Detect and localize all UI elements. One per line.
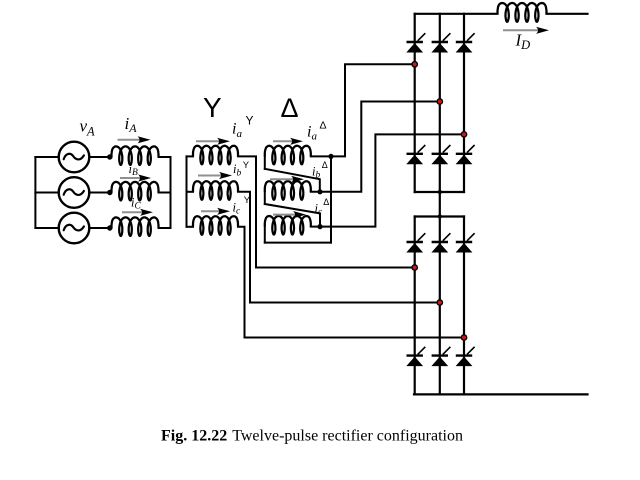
wire Y c output: [238, 227, 464, 338]
wire source C left stub: [35, 227, 58, 229]
wire primary A right lead: [159, 156, 171, 158]
Y secondary winding c: [193, 216, 238, 235]
voltage source vA: [59, 142, 90, 173]
junction top bridge phase c: [461, 132, 466, 137]
wire primary B right lead: [159, 192, 171, 194]
junction delta a: [328, 154, 333, 159]
arrow ic_D: [273, 211, 306, 218]
Delta secondary winding b: [265, 181, 311, 200]
smoothing inductor LD: [498, 3, 547, 22]
wire delta b tap: [311, 102, 440, 192]
thyristor T10 lower: [406, 347, 425, 366]
label ib_D: [312, 160, 328, 181]
wire delta c start hook: [264, 227, 266, 243]
junction top bridge phase b: [437, 99, 442, 104]
junction delta c: [317, 224, 322, 229]
svg-text:Δ: Δ: [323, 197, 329, 207]
Delta secondary winding a: [265, 146, 311, 165]
wire source B left stub: [35, 192, 58, 194]
wire top bridge positive bus: [415, 13, 498, 15]
wire delta right link: [330, 156, 332, 242]
thyristor T9: [431, 233, 450, 252]
wire delta a-b diagonal: [265, 169, 320, 192]
thyristor T3: [431, 33, 450, 52]
wire bottom bridge leg 3: [463, 217, 465, 395]
svg-text:Y: Y: [246, 114, 254, 128]
arrow ia_D: [273, 138, 303, 145]
label ic_Y: [233, 195, 251, 217]
wire source A to primary A: [89, 156, 111, 158]
thyristor T4 lower: [406, 145, 425, 164]
arrow ib_Y: [198, 172, 232, 179]
polarity dot primary B: [107, 190, 112, 195]
caption: [161, 428, 463, 445]
primary winding C: [112, 217, 159, 236]
wire top bridge lower bus: [415, 191, 464, 193]
label iA: [125, 114, 138, 135]
svg-text:Y: Y: [244, 195, 251, 206]
thyristor T5: [456, 33, 475, 52]
wire source C to primary C: [89, 227, 111, 229]
wire bottom bridge leg 1: [414, 217, 416, 395]
wire Y b output: [238, 192, 440, 303]
label iC: [131, 196, 141, 212]
wire Y b left stub: [187, 191, 194, 193]
label ia_Y: [232, 114, 254, 140]
wire delta a start hook: [264, 156, 266, 168]
junction top bridge lower bus: [438, 190, 442, 194]
wire delta b-c diagonal: [265, 204, 320, 227]
wire primary neutral bus: [170, 157, 172, 228]
Y secondary winding b: [193, 181, 238, 200]
polarity dot primary C: [107, 225, 112, 230]
thyristor T11: [456, 233, 475, 252]
wire bottom bridge leg 2: [439, 217, 441, 395]
primary winding B: [112, 182, 159, 201]
wire Y a output: [238, 156, 415, 267]
Delta secondary winding c: [265, 216, 311, 235]
junction delta b: [317, 189, 322, 194]
wire Y c left stub: [187, 226, 194, 228]
svg-text:Y: Y: [203, 92, 222, 123]
wire source A left stub: [35, 156, 58, 158]
wire delta c tap: [311, 134, 464, 226]
thyristor T1: [406, 33, 425, 52]
wire top bridge leg 1: [414, 14, 416, 192]
thyristor T8 lower: [456, 347, 475, 366]
label vA: [80, 117, 96, 139]
thyristor T7: [406, 233, 425, 252]
wire delta b start hook: [264, 192, 266, 204]
svg-text:Δ: Δ: [320, 119, 327, 131]
junction bottom bridge upper bus: [438, 214, 442, 218]
wire delta a tap: [311, 64, 415, 156]
wire bottom bridge upper bus: [415, 215, 464, 217]
primary winding A: [112, 146, 159, 165]
voltage source vB: [59, 177, 90, 208]
arrow iB: [120, 174, 151, 181]
voltage source vC: [59, 213, 90, 244]
wire Y star bus: [186, 156, 188, 226]
label Y bank: [203, 92, 222, 123]
wire top bridge leg 3: [463, 14, 465, 192]
junction bottom bridge phase c: [461, 335, 466, 340]
svg-text:Y: Y: [243, 160, 250, 171]
thyristor T6 lower: [431, 145, 450, 164]
thyristor T2 lower: [456, 145, 475, 164]
wire bottom bridge negative bus: [414, 393, 588, 395]
junction bottom bridge phase b: [437, 300, 442, 305]
polarity dot primary A: [107, 154, 112, 159]
arrow ID: [503, 27, 549, 34]
thyristor T12 lower: [431, 347, 450, 366]
Y secondary winding a: [193, 146, 238, 165]
svg-text:Fig. 12.22Twelve-pulse rectifi: Fig. 12.22Twelve-pulse rectifier configu…: [161, 428, 463, 445]
svg-text:Δ: Δ: [281, 93, 299, 123]
wire dc output positive: [547, 13, 588, 15]
arrow iC: [122, 209, 153, 216]
label iB: [129, 162, 138, 178]
junction top bridge phase a: [412, 62, 417, 67]
wire top bridge leg 2: [439, 14, 441, 192]
wire source B to primary B: [89, 192, 111, 194]
arrow ic_Y: [201, 208, 230, 215]
arrow ia_Y: [196, 138, 230, 145]
wire source left bus: [34, 157, 36, 228]
wire bridge interconnect: [439, 192, 441, 217]
label ic_D: [315, 197, 330, 218]
label ia_D: [307, 119, 327, 142]
wire primary C right lead: [159, 227, 171, 229]
label Delta bank: [281, 93, 299, 123]
wire delta bottom link: [265, 242, 331, 244]
arrow ib_D: [270, 176, 304, 183]
arrow iA: [118, 136, 151, 143]
svg-text:Δ: Δ: [322, 160, 328, 170]
label ib_Y: [233, 160, 250, 179]
label ID: [515, 31, 531, 53]
wire Y a left stub: [187, 155, 194, 157]
junction bottom bridge phase a: [412, 265, 417, 270]
